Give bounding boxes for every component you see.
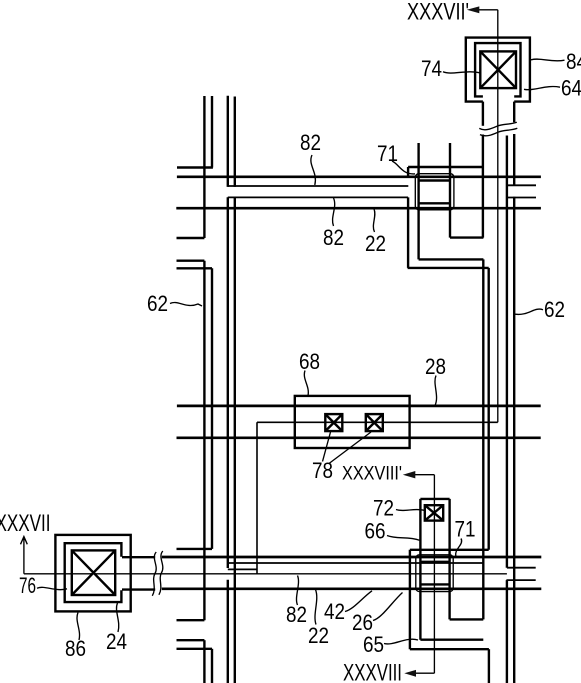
leader 24: [116, 603, 118, 632]
wire: gate-layer edge vertical (left, x=204) middle run: [203, 261, 205, 621]
leader 42: [345, 591, 372, 612]
svg-text:28: 28: [425, 354, 446, 379]
svg-text:42: 42: [324, 599, 345, 624]
wire: TFT source vertical x=409.9: [409, 550, 411, 649]
section line XXXVII horizontal through bottom pad: [24, 573, 507, 575]
leader 72: [396, 510, 425, 511]
wire: data line 62 left column, right edge upper: [234, 97, 236, 187]
svg-text:22: 22: [308, 623, 329, 648]
arrowhead XXXVIII': [403, 471, 416, 478]
wire: staircase y=267.9: [408, 267, 489, 269]
break symbol lower wavy line (neck): [480, 128, 517, 136]
leader 82 middle: [333, 198, 335, 226]
TFT drain left vertical x=420.4: [419, 499, 421, 640]
wire: gate-layer edge vertical (left, x=212) bottom run: [211, 649, 213, 683]
capacitor electrode box 68: [295, 396, 410, 448]
wire: stub at y=268.3 left: [177, 267, 213, 269]
svg-text:86: 86: [65, 636, 86, 661]
svg-text:82: 82: [286, 602, 307, 627]
contact hole 72 crossed square: [425, 505, 443, 520]
wire: pad neck left edge below break: [482, 135, 484, 238]
leader 78 to left crossed square: [323, 432, 331, 462]
leader 62 left: [170, 302, 202, 306]
svg-text:72: 72: [373, 496, 394, 521]
svg-text:XXXVIII': XXXVIII': [342, 464, 402, 485]
contact hole 74 crossed square (top right pad): [480, 51, 516, 88]
wire: stub y=620.2 left: [177, 619, 205, 621]
wire: ITO edge 82 at y=186: [228, 185, 408, 187]
wire: rectangle bottom y=237.6: [450, 236, 483, 238]
wire: data line 62 left column, left edge upper: [227, 96, 229, 187]
leader 86: [77, 613, 80, 641]
contact pad 86 outer square (bottom left): [55, 535, 130, 612]
wire: pad neck right edge above break: [513, 102, 515, 123]
capacitor line 28 (long line A y=405.9): [177, 405, 541, 408]
wire: row line y=589.9 (right of break, long): [162, 587, 542, 590]
svg-text:XXXVII: XXXVII: [0, 510, 51, 537]
wire: gate-layer edge vertical (left, x=212) middle run: [211, 268, 213, 549]
TFT channel bar y=561.8: [420, 561, 449, 563]
wire: gate trace from pad, top edge y=557 (left of break): [122, 556, 155, 558]
leader 82 top: [311, 155, 316, 185]
arrow shaft XXXVIII (bottom): [413, 672, 434, 674]
leader 22 bottom: [315, 590, 317, 625]
wire: stub y=648.8 left: [177, 648, 213, 650]
svg-text:65: 65: [363, 632, 384, 657]
wire: drain connection vertical x=483.3: [482, 259, 484, 619]
leader 66: [387, 536, 420, 541]
wire: gate-layer edge vertical (left, x=212) upper run: [211, 96, 213, 168]
svg-text:64: 64: [561, 76, 581, 101]
leader 64: [524, 87, 560, 90]
section line XXXVIII-XXXVIII' vertical x=434.4: [433, 475, 435, 674]
TFT drain rectangle top edge y=498.9: [420, 498, 449, 500]
leader 76: [37, 587, 67, 589]
wire: stub at y=167.5 left: [177, 166, 213, 168]
svg-text:71: 71: [455, 517, 476, 542]
wire: stub y=640.2 left: [177, 639, 205, 641]
svg-text:78: 78: [312, 458, 333, 483]
arrowhead XXXVII': [467, 6, 480, 13]
contact pad 64 middle square (top right): [475, 43, 520, 96]
wire: ITO edge stub right of data line y=197.5: [506, 197, 536, 199]
wire: jog vertical x=408 lower run: [407, 197, 409, 268]
leader 74: [443, 72, 480, 73]
wire: gate line 22 lower edge (long): [176, 207, 541, 210]
TFT channel bar y=584.4: [420, 583, 449, 585]
contact metal box lower bar (top crossing): [419, 202, 450, 204]
arrow shaft XXXVIII': [409, 474, 434, 476]
contact hole 76 crossed square (bottom left pad): [72, 550, 115, 595]
wire: data line 62 left column, left edge bottom: [227, 580, 229, 683]
svg-text:82: 82: [323, 225, 344, 250]
wire: jog line y=167 to neck: [408, 166, 483, 168]
wire: gate line 22 upper edge (long): [177, 175, 541, 178]
wire: gate-layer edge vertical (left, x=204) upper run: [203, 96, 205, 238]
wire: drain bottom y=619.4: [450, 618, 484, 620]
section line vertical x=257: [256, 422, 258, 574]
contact metal box between source verticals (top crossing), upper bar: [419, 179, 450, 181]
arrow shaft XXXVII (bottom left, pointing up): [21, 537, 28, 574]
wire: step y=649.2: [410, 648, 489, 650]
svg-text:62: 62: [147, 291, 168, 316]
leader 71 bottom: [456, 539, 462, 558]
leader 62 right: [515, 309, 543, 314]
wire: ITO edge y=563.6: [228, 562, 483, 564]
wire: drain connection vertical x=488.7: [488, 268, 490, 550]
wire: ITO edge stub right of data line y=567.7: [507, 567, 536, 569]
svg-text:68: 68: [299, 349, 320, 374]
wire: data line 62 right column, right edge upper: [513, 134, 515, 186]
wire: source electrode vertical x=418.6: [417, 143, 419, 259]
svg-text:62: 62: [544, 297, 565, 322]
leader 28: [435, 376, 437, 406]
contact pad 84 outer square (top right): [466, 38, 530, 102]
svg-text:22: 22: [365, 231, 386, 256]
leader 82 bottom: [296, 576, 298, 606]
contact hole 78 crossed square (left): [325, 414, 342, 431]
wire: pad neck left edge above break: [482, 102, 484, 126]
wire: data line 62 left column, right edge main: [234, 197, 236, 683]
contact hole 71 thin rounded square (bottom TFT): [416, 555, 453, 592]
break symbol right wavy line (trace): [159, 551, 163, 595]
leader 22 top: [373, 209, 375, 232]
contact hole 71 thin rounded square (top crossing): [415, 174, 454, 210]
svg-text:82: 82: [300, 130, 321, 155]
wire: data line 62 right column, right edge main: [513, 197, 515, 683]
wire: vertical x=488.9 to bottom edge: [488, 649, 490, 683]
leader 68: [304, 371, 308, 396]
wire: gate trace / row line y=557 (right of break, long): [162, 556, 542, 559]
leader 65: [384, 639, 418, 644]
wire: jog vertical x=408 (gate line step up): [407, 167, 409, 177]
TFT drain right vertical x=449.6: [448, 499, 450, 620]
wire: data line 62 right column, left edge upper: [506, 136, 508, 568]
arrow shaft XXXVII' (top): [476, 9, 498, 11]
svg-text:XXXVII': XXXVII': [407, 0, 469, 26]
section line XXXVII-XXXVII' vertical through top pad: [497, 10, 499, 423]
section line segment C y=422.3: [257, 421, 498, 423]
wire: ITO edge stub right of data line y=580.1: [506, 579, 535, 581]
contact pad 24 middle square (bottom left): [65, 543, 122, 602]
wire: TFT source branch y=549.8: [410, 549, 489, 551]
contact hole 78 crossed square (right): [366, 414, 383, 431]
svg-text:84: 84: [566, 49, 581, 74]
svg-text:66: 66: [365, 519, 386, 544]
break symbol upper wavy line (neck): [479, 122, 517, 129]
wire: stub at y=260.7 left: [177, 260, 205, 262]
svg-text:XXXVIII: XXXVIII: [343, 660, 402, 683]
wire: gate trace from pad, bottom edge y=589.9 (left of break): [122, 588, 155, 590]
wire: data line 62 right column, left edge bottom: [506, 580, 508, 683]
wire: stub at y=238 left: [177, 237, 205, 239]
wire: data line 62 left column, left edge main: [227, 197, 229, 568]
svg-text:24: 24: [106, 629, 127, 654]
wire: stub y=570.8: [228, 568, 257, 570]
svg-text:76: 76: [19, 573, 36, 598]
leader 84: [531, 59, 565, 61]
wire: gate-layer edge vertical (left, x=204) bottom run: [203, 640, 205, 683]
wire: stub y=548.9 left: [177, 548, 213, 550]
wire: ITO edge 82 at y=197.4: [228, 196, 408, 198]
leader 78 to right crossed square: [329, 432, 371, 464]
wire: staircase y=259.4: [419, 258, 484, 260]
svg-text:74: 74: [421, 56, 442, 81]
wire: line B y=437.8: [177, 436, 541, 439]
wire: step y=639.7: [420, 639, 483, 641]
arrowhead XXXVIII: [404, 670, 416, 677]
leader 71 top: [392, 161, 415, 174]
wire: ITO edge stub right of data line y=185.3: [508, 184, 536, 186]
leader 26: [373, 593, 403, 621]
break symbol left wavy line (trace): [152, 552, 156, 596]
wire: source electrode vertical x=450: [449, 143, 451, 238]
